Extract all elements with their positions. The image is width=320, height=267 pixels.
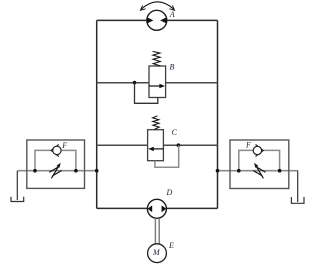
wire right rail <box>217 20 219 208</box>
check valve in F left <box>51 144 61 156</box>
svg-text:F: F <box>245 140 251 149</box>
shaft between pump D and electric motor E <box>155 218 159 244</box>
wire left bypass loop <box>35 150 53 170</box>
relief valve C internal flow arrow <box>148 147 163 151</box>
wire B branch right segment <box>166 82 218 84</box>
svg-text:D: D <box>166 188 173 197</box>
junction node right rail <box>216 169 220 173</box>
wire right tank drop <box>297 171 299 202</box>
bidirectional rotation arrow above A <box>140 2 174 11</box>
speed control valve F right enclosure <box>230 140 289 189</box>
junction node left rail <box>95 169 99 173</box>
wire B pilot line <box>135 83 158 104</box>
wire C branch left segment <box>97 144 148 146</box>
hydraulic motor A <box>147 10 167 30</box>
svg-text:F: F <box>61 141 67 150</box>
svg-text:E: E <box>168 241 174 250</box>
wire left rail <box>96 20 98 208</box>
relief valve C body <box>148 130 164 161</box>
svg-text:M: M <box>152 248 161 257</box>
relief valve B body <box>149 66 166 98</box>
wire bottom line of frame <box>97 207 218 209</box>
wire left tank drop <box>16 171 18 200</box>
svg-text:B: B <box>170 63 175 72</box>
junction node right bypass right <box>278 169 282 173</box>
relief valve B internal flow arrow <box>149 84 165 88</box>
wire top line of frame <box>97 19 218 21</box>
wire right bypass loop <box>239 150 253 170</box>
junction node left bypass left <box>33 169 37 173</box>
pump D <box>147 199 166 218</box>
spring of valve B <box>153 51 161 66</box>
junction node right bypass left <box>237 169 241 173</box>
spring of valve C <box>153 116 160 130</box>
junction node on C pilot tap <box>177 143 181 147</box>
wire right gray line rail to tank <box>218 170 298 172</box>
wire left gray line rail to tank <box>17 170 96 172</box>
tank symbol left <box>11 197 24 202</box>
check valve in F right <box>253 145 263 157</box>
wire C pilot line <box>155 145 179 167</box>
speed control valve F left enclosure <box>27 140 85 188</box>
tank symbol right <box>291 197 304 203</box>
variable throttle in F left <box>49 163 61 179</box>
svg-text:C: C <box>172 128 178 137</box>
variable throttle in F right <box>253 163 265 179</box>
electric motor E <box>148 244 167 263</box>
wire B branch left segment <box>97 82 149 84</box>
junction node on B pilot tap <box>133 81 137 85</box>
junction node left bypass right <box>74 169 78 173</box>
wire C branch right segment <box>163 144 217 146</box>
svg-text:A: A <box>169 10 175 19</box>
